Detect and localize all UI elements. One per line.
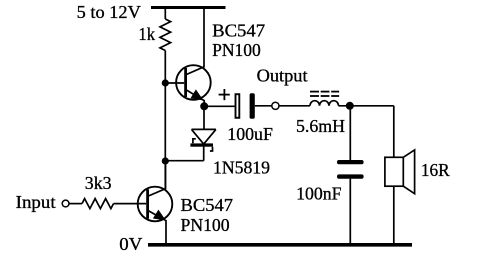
svg-text:PN100: PN100 xyxy=(212,40,261,60)
svg-text:3k3: 3k3 xyxy=(85,173,112,193)
svg-text:16R: 16R xyxy=(421,160,450,180)
svg-text:100uF: 100uF xyxy=(227,124,273,144)
svg-text:Input: Input xyxy=(16,192,56,212)
svg-text:1N5819: 1N5819 xyxy=(213,158,270,178)
svg-text:5 to 12V: 5 to 12V xyxy=(77,2,142,22)
svg-text:0V: 0V xyxy=(119,234,142,254)
svg-text:Output: Output xyxy=(257,66,308,86)
svg-text:BC547: BC547 xyxy=(181,195,234,215)
svg-text:1k: 1k xyxy=(138,24,155,44)
svg-text:PN100: PN100 xyxy=(181,215,230,235)
svg-text:5.6mH: 5.6mH xyxy=(296,116,345,136)
svg-text:BC547: BC547 xyxy=(212,21,265,41)
svg-text:100nF: 100nF xyxy=(296,184,342,204)
